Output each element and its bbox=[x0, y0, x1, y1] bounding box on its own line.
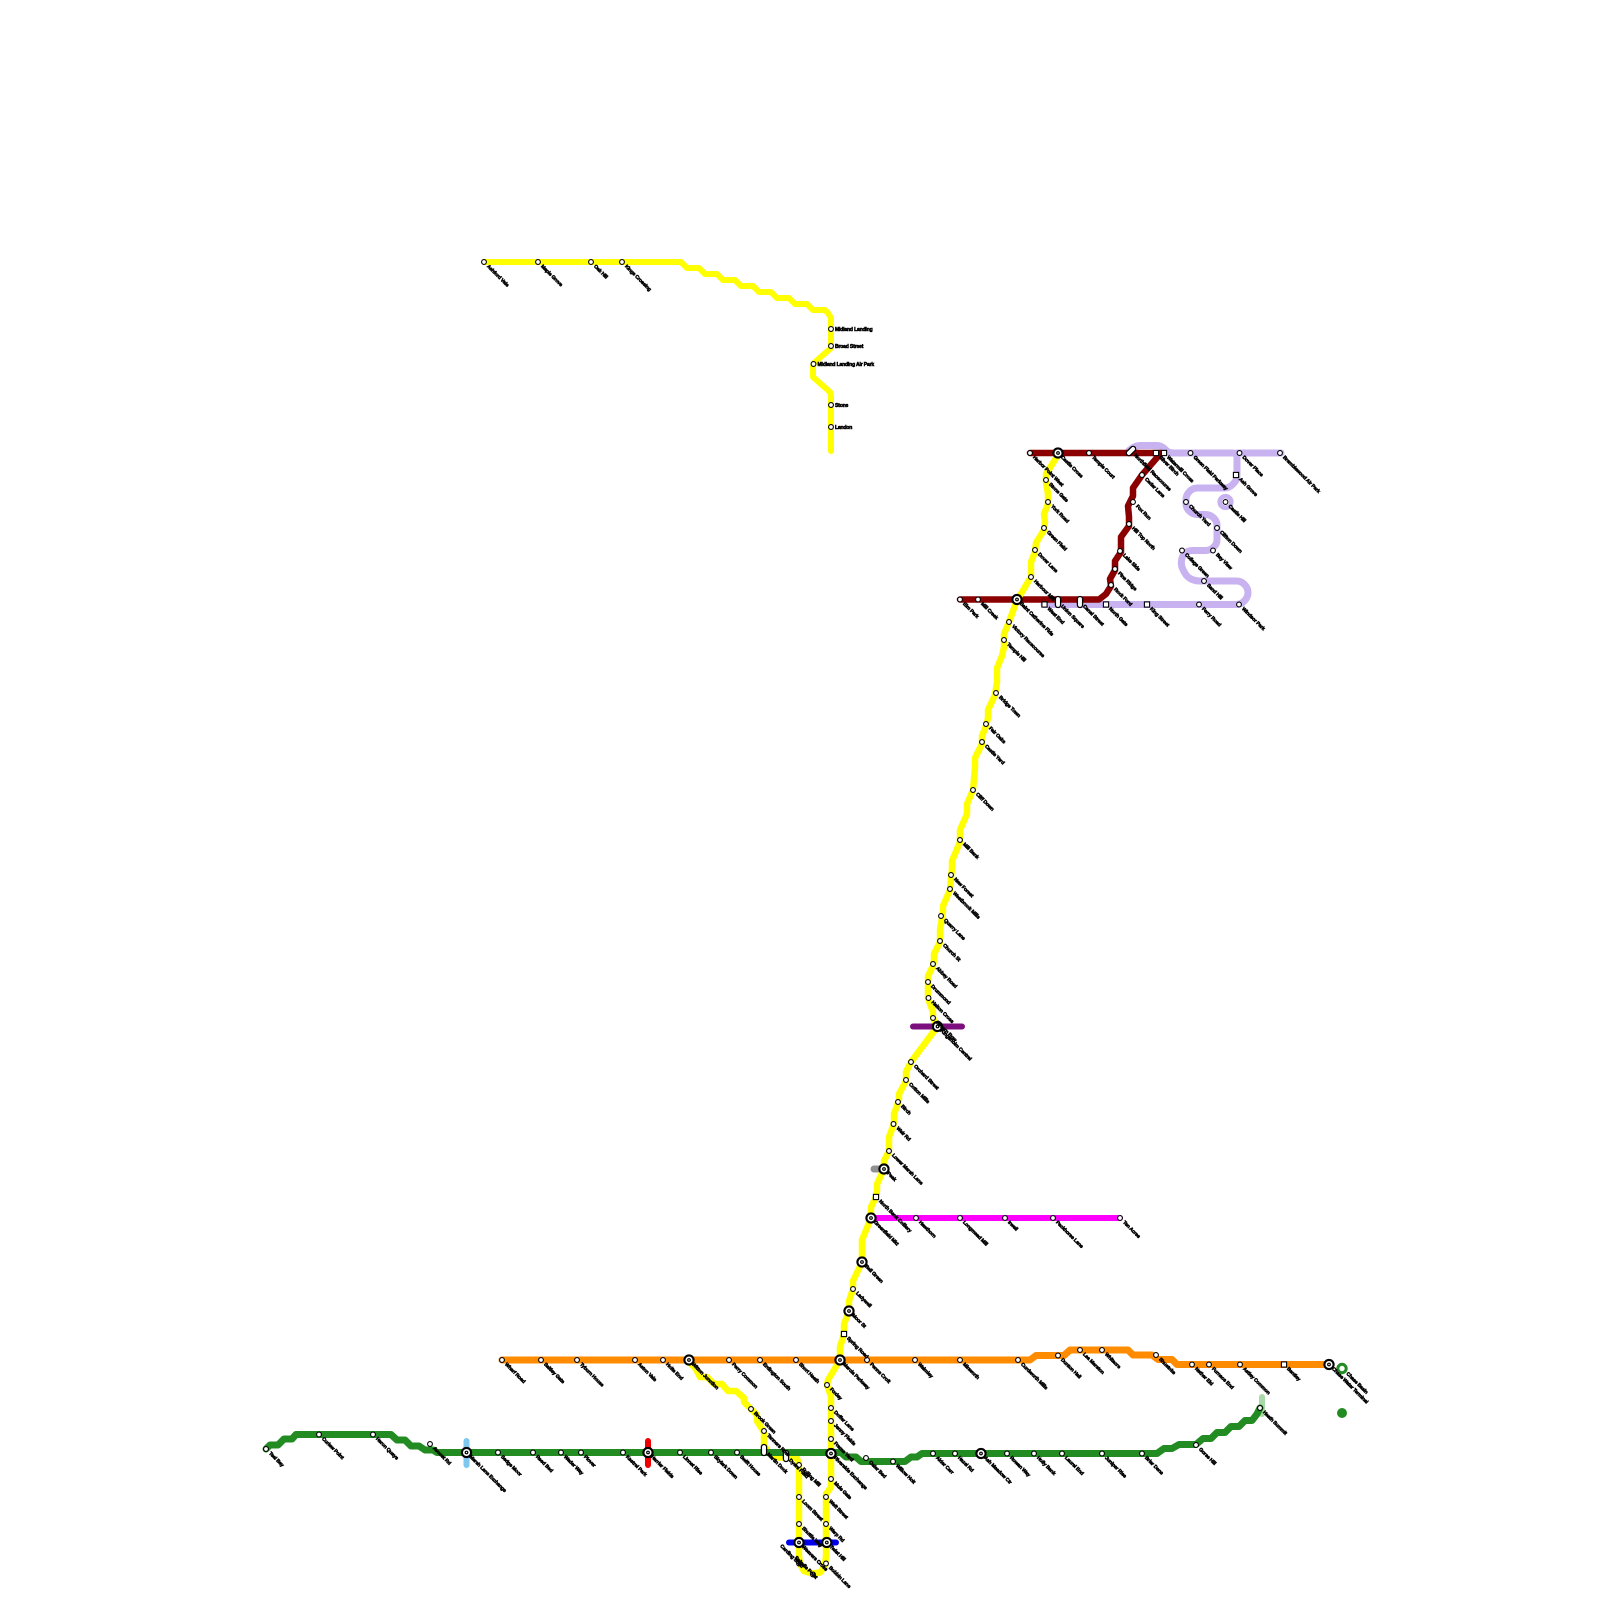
red stub at Green interchange bbox=[645, 1441, 651, 1465]
station Tyburn House (577,1360) bbox=[575, 1358, 580, 1363]
station Northfield Racecourse (1131,451) bbox=[1125, 445, 1136, 456]
station Oak Hill (591,262) bbox=[589, 260, 594, 265]
station Longmead Mill (960,1218) bbox=[958, 1216, 963, 1221]
station Spring Road (844,1334) bbox=[841, 1331, 846, 1336]
station Castle Yard (982,742) bbox=[980, 740, 985, 745]
station Osier Bed (866,1458) bbox=[864, 1456, 869, 1461]
station Nether Eld (1192,1364.5) bbox=[1190, 1362, 1195, 1367]
station Rowan Way (1007,1453.5) bbox=[1005, 1451, 1010, 1456]
station Church St (940,941) bbox=[938, 939, 943, 944]
blue line bbox=[789, 1540, 836, 1546]
station Teal Bay (266,1449) bbox=[264, 1447, 269, 1452]
station Severn Row (933,1018) bbox=[931, 1016, 936, 1021]
station Saint Catherine Flds (1017,599.5) bbox=[1012, 595, 1021, 604]
orange line bbox=[502, 1350, 1329, 1365]
magenta line bbox=[871, 1215, 1120, 1221]
station Church Yard (1186,502) bbox=[1184, 500, 1189, 505]
svg-text:Midland Landing Air Park: Midland Landing Air Park bbox=[818, 362, 875, 368]
station Ashford Vale (484,262) bbox=[482, 260, 487, 265]
station Mill Creek (978,599.5) bbox=[976, 597, 981, 602]
yellow line northwest segment bbox=[484, 262, 831, 451]
lavender line main bbox=[1044, 446, 1248, 605]
station Perry Common (729,1360) bbox=[727, 1358, 732, 1363]
station Skylark Down (711,1452.5) bbox=[709, 1450, 714, 1455]
station Ferry Road (1199,604.5) bbox=[1197, 602, 1202, 607]
station Wader Way (561,1452.5) bbox=[559, 1450, 564, 1455]
svg-text:Stone: Stone bbox=[835, 403, 849, 409]
station Martin Dock (764,1450) bbox=[761, 1445, 766, 1456]
red sliver at Orange/Yellow interchange bbox=[830, 1357, 838, 1363]
station Birch (898,1102) bbox=[896, 1100, 901, 1105]
station Laurel End (1062,1453.5) bbox=[1060, 1451, 1065, 1456]
station Elm Park (960,599.5) bbox=[958, 597, 963, 602]
station Dyers Field (786,1456) bbox=[783, 1451, 788, 1462]
station Bell Green (862,1262) bbox=[857, 1257, 866, 1266]
station Bramblewood Air Park (1280,453) bbox=[1278, 451, 1283, 456]
station Windsor Park (1239,604.5) bbox=[1237, 602, 1242, 607]
station Curdworth Mills (1018,1360) bbox=[1016, 1358, 1021, 1363]
station Abbey Road (933,964) bbox=[931, 962, 936, 967]
station Fair Oaks (986,724) bbox=[984, 722, 989, 727]
station Harbor Point West (1030,453) bbox=[1028, 451, 1033, 456]
station York Road (1048,502) bbox=[1046, 500, 1051, 505]
station Harrier Fields (648,1452.5) bbox=[643, 1448, 652, 1457]
station Quarry Lane (941,916) bbox=[939, 914, 944, 919]
station Green Field (1044,528) bbox=[1042, 526, 1047, 531]
station Castle Cross (1058,453) bbox=[1053, 448, 1062, 457]
station Brook Green (751,1409) bbox=[749, 1407, 754, 1412]
station Shustoke (1156,1355) bbox=[1154, 1353, 1159, 1358]
station Loom Street (799,1497) bbox=[797, 1495, 802, 1500]
station Frame Yard (831,1439) bbox=[829, 1437, 834, 1442]
station Drummond (928,982) bbox=[926, 980, 931, 985]
station Lake Side (1120,551) bbox=[1118, 549, 1123, 554]
station Holly Bank (1034,1453.5) bbox=[1032, 1451, 1037, 1456]
station Weir Rd (893.5,1124) bbox=[891, 1122, 896, 1127]
dark red line bbox=[960, 453, 1161, 600]
station Mule Gate (831,1479) bbox=[829, 1477, 834, 1482]
station Furnace End (1209,1364.5) bbox=[1207, 1362, 1212, 1367]
station Cedar Lane (1142,475) bbox=[1140, 473, 1145, 478]
light blue stub at Green interchange bbox=[464, 1441, 470, 1465]
station Lower Marsh Lane (889,1151) bbox=[887, 1149, 892, 1154]
station Heron Quays (373,1434.5) bbox=[371, 1432, 376, 1437]
station Clifton Down (1217,528) bbox=[1215, 526, 1220, 531]
light green stub at Green east terminus bbox=[1259, 1397, 1265, 1414]
station Whitacre (1102,1350) bbox=[1100, 1348, 1105, 1353]
station Union Square (1058,602) bbox=[1055, 597, 1060, 608]
station Watermill Cross (1164,453) bbox=[1161, 450, 1166, 455]
station Jenny Fields (831,1421) bbox=[829, 1419, 834, 1424]
station Green Field Parkway (1190.5,453) bbox=[1188, 451, 1193, 456]
station College Green (1182,550.5) bbox=[1180, 548, 1185, 553]
station Dover Lane (1035,550) bbox=[1033, 548, 1038, 553]
station Broad Street (831,346) bbox=[829, 344, 834, 349]
station Hawthorn (916,1218) bbox=[914, 1216, 919, 1221]
lavender line east branch bbox=[1237, 450, 1281, 457]
yellow line main trunk bbox=[840, 455, 1058, 1360]
station Orchard Street (911,1062) bbox=[909, 1060, 914, 1065]
station Kings Crossing (622,262) bbox=[620, 260, 625, 265]
station Riverside Exchange (831,1453.5) bbox=[826, 1449, 835, 1458]
station Victory Racecourse (1009,622) bbox=[1007, 620, 1012, 625]
station Walmley (915,1360) bbox=[913, 1358, 918, 1363]
station Fox Run (1133,502) bbox=[1131, 500, 1136, 505]
station Sand Hill (1204,581) bbox=[1202, 579, 1207, 584]
station Foxley (827,1385) bbox=[825, 1383, 830, 1388]
station King Street (1147,604.5) bbox=[1144, 602, 1149, 607]
station Curlew Point (319,1434.5) bbox=[317, 1432, 322, 1437]
station Ash Grove (1236,475) bbox=[1233, 472, 1238, 477]
svg-text:Midland Landing: Midland Landing bbox=[835, 327, 873, 333]
station Mill Bank (960,840) bbox=[958, 838, 963, 843]
station Juniper Rise (1102,1453.5) bbox=[1100, 1451, 1105, 1456]
station West End (1044.5,604.5) bbox=[1042, 602, 1047, 607]
station Chase Water Terminal (1329,1364.5) bbox=[1324, 1360, 1333, 1369]
station Stone Gate (1046,480) bbox=[1044, 478, 1049, 483]
station Maple Grove (538,262) bbox=[536, 260, 541, 265]
station Midland Landing Air Park (813.5,364) bbox=[811, 362, 816, 367]
station Landon (831,427) bbox=[829, 425, 834, 430]
station Dover Place (1239.5,453) bbox=[1237, 451, 1242, 456]
station Tanners Row (764,1431) bbox=[762, 1429, 767, 1434]
station North Gate (1106,604.5) bbox=[1103, 602, 1108, 607]
station Dunton Hall (1058,1355.5) bbox=[1056, 1353, 1061, 1358]
station Marsh Lane Exchange (466.5,1452.5) bbox=[462, 1448, 471, 1457]
station Halton Cross (928.5,998) bbox=[926, 996, 931, 1001]
station Temple Hill (1004,640) bbox=[1002, 638, 1007, 643]
station Wharf Road (502,1360) bbox=[500, 1358, 505, 1363]
station Bobbin Lane (826,1563.5) bbox=[824, 1561, 829, 1566]
station North Bank Colliery (876,1197) bbox=[873, 1194, 878, 1199]
station Plover (581,1452.5) bbox=[579, 1450, 584, 1455]
station Midland Landing (831,329) bbox=[829, 327, 834, 332]
station Briar Dene (1142,1453.5) bbox=[1140, 1451, 1145, 1456]
station Cotton Mills (906,1080) bbox=[904, 1078, 909, 1083]
station Castle Hill (1225.5,502) bbox=[1223, 500, 1228, 505]
station Heath Summit (1260,1408) bbox=[1258, 1406, 1263, 1411]
station Sedge Moor (498,1452.5) bbox=[496, 1450, 501, 1455]
lavender mini loop bbox=[1220, 496, 1232, 508]
svg-text:Landon: Landon bbox=[835, 425, 852, 431]
station Peak (884,1169) bbox=[879, 1164, 888, 1173]
station Saltley Gate (541,1360) bbox=[539, 1358, 544, 1363]
station name labels bbox=[267, 264, 1369, 1590]
purple line bbox=[913, 1024, 962, 1030]
station Moor St (849,1311) bbox=[844, 1306, 853, 1315]
station Canal Street (1080,602) bbox=[1077, 597, 1082, 608]
station Warp Rd (826,1524) bbox=[824, 1522, 829, 1527]
station Ten Acres (1120,1218) bbox=[1118, 1216, 1123, 1221]
station Linnet Rise (680,1452.5) bbox=[678, 1450, 683, 1455]
station Gorse Hill (1196,1445) bbox=[1194, 1443, 1199, 1448]
station Astley Common (1240,1364.5) bbox=[1238, 1362, 1243, 1367]
station Bentley (1284,1364.5) bbox=[1281, 1362, 1286, 1367]
station Erdington South (760,1360) bbox=[758, 1358, 763, 1363]
station Irwell (1005,1218) bbox=[1003, 1216, 1008, 1221]
station Spindle Point (813,1574.5) bbox=[811, 1572, 816, 1577]
station Lea Marston (1080,1350) bbox=[1078, 1348, 1083, 1353]
station Kingsholm Central (937.5,1026.5) bbox=[933, 1022, 942, 1031]
station Aston Vale (635,1360) bbox=[633, 1358, 638, 1363]
green ring station next to orange terminus bbox=[1338, 1364, 1346, 1372]
station Doffer Lane (831,1408) bbox=[829, 1406, 834, 1411]
station Cliff Down (973,790) bbox=[971, 788, 976, 793]
station Temple Court (1089,453) bbox=[1087, 451, 1092, 456]
station Mercia Parkway (840,1360) bbox=[835, 1355, 844, 1364]
station Short Heath (796,1360) bbox=[794, 1358, 799, 1363]
station Alder Carr (933,1453.5) bbox=[931, 1451, 936, 1456]
station Stone (831,405) bbox=[829, 403, 834, 408]
station Carding Shed (799,1563.5) bbox=[797, 1561, 802, 1566]
station Silver Birch (1156,453) bbox=[1153, 450, 1158, 455]
station Weavers Cross (799,1542.5) bbox=[794, 1538, 803, 1547]
station Hill Top North (1129,524) bbox=[1127, 522, 1132, 527]
station Hazel Rd (955,1453.5) bbox=[953, 1451, 958, 1456]
station Reed Bed (533,1452.5) bbox=[531, 1450, 536, 1455]
station Penns Croft (867,1360) bbox=[865, 1358, 870, 1363]
station Westbrook Mills (950,889) bbox=[948, 887, 953, 892]
green dot landmark bbox=[1337, 1408, 1347, 1418]
station Kestrel Park (623,1452.5) bbox=[621, 1450, 626, 1455]
station Twist Hill (826.8,1542.5) bbox=[822, 1538, 831, 1547]
station Ladywell (853,1289) bbox=[851, 1287, 856, 1292]
gray stub at Yellow station bbox=[874, 1166, 886, 1173]
station Ash Meadow Ctr (981,1453.5) bbox=[976, 1449, 985, 1458]
yellow line bottom loop bbox=[689, 1360, 840, 1574]
station Bay View (1213,550.5) bbox=[1211, 548, 1216, 553]
station Bridge Town (996,693) bbox=[994, 691, 999, 696]
station Greenfield Mkt (871,1218) bbox=[866, 1213, 875, 1222]
station Holte End (663,1360) bbox=[661, 1358, 666, 1363]
svg-text:Broad Street: Broad Street bbox=[835, 344, 864, 350]
station Pine Ridge (1115,569) bbox=[1113, 567, 1118, 572]
station Avocet Rd (430,1444) bbox=[428, 1442, 433, 1447]
station Weft Street (826,1497) bbox=[824, 1495, 829, 1500]
station Shuttle Way (799,1524) bbox=[797, 1522, 802, 1527]
station New Forest (951,875) bbox=[949, 873, 954, 878]
station Rock Ford (1111,585) bbox=[1109, 583, 1114, 588]
station Fulling Mill (799,1465) bbox=[797, 1463, 802, 1468]
green line bbox=[266, 1408, 1260, 1462]
station Minworth (960,1360) bbox=[958, 1358, 963, 1363]
station Harbour Mill (1031,577) bbox=[1029, 575, 1034, 580]
station Willow Holt (893,1461.5) bbox=[891, 1459, 896, 1464]
station Swift House (737,1452.5) bbox=[735, 1450, 740, 1455]
station Witton Junction (689,1360) bbox=[684, 1355, 693, 1364]
station Packhorse Lane (1053,1218) bbox=[1051, 1216, 1056, 1221]
